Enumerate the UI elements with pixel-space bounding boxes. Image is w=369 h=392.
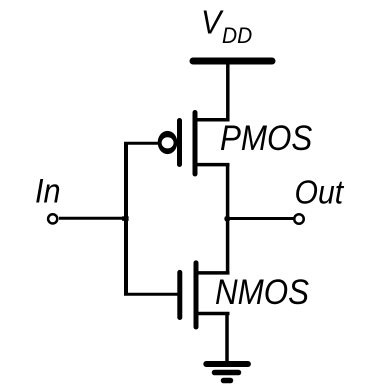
svg-text:Out: Out <box>295 174 345 211</box>
svg-text:PMOS: PMOS <box>220 119 312 158</box>
svg-text:In: In <box>35 173 61 211</box>
svg-text:NMOS: NMOS <box>215 273 309 312</box>
svg-text:V: V <box>201 3 224 40</box>
svg-text:DD: DD <box>222 23 252 48</box>
